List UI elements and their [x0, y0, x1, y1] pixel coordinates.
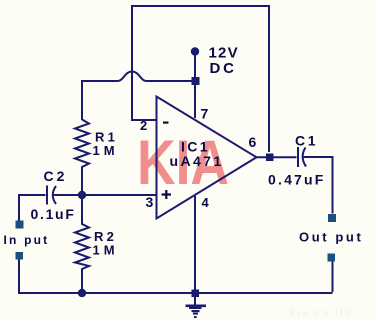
svg-text:1M: 1M: [93, 243, 119, 258]
svg-text:C2: C2: [44, 168, 68, 184]
terminal input lower square: [16, 252, 24, 260]
wire pin 3 / C2 line: [19, 194, 156, 196]
junction pin4 / ground rail: [192, 290, 200, 298]
wire pin 2: [131, 119, 156, 121]
svg-text:1M: 1M: [93, 143, 119, 158]
ground stem: [194, 296, 196, 305]
wire ground rail bottom: [18, 292, 333, 294]
svg-text:In put: In put: [4, 233, 50, 247]
capacitor C1 plates: [298, 147, 306, 167]
terminal input upper square: [16, 221, 24, 229]
junction pin6 / feedback / C1: [266, 154, 274, 162]
svg-text:4: 4: [202, 195, 210, 210]
op-amp plus sign: [162, 190, 171, 199]
capacitor C2 plates: [47, 186, 56, 205]
svg-text:kia co ltd: kia co ltd: [290, 308, 353, 319]
svg-text:6: 6: [249, 134, 257, 150]
node 12V terminal dot: [191, 47, 199, 55]
svg-text:0.1uF: 0.1uF: [31, 206, 76, 222]
svg-text:Out put: Out put: [299, 230, 363, 245]
wire input drop: [18, 194, 20, 292]
junction R2 bottom / ground rail: [78, 289, 86, 297]
junction 12V rail / R1 / pin7: [192, 77, 200, 85]
resistor R1 zigzag: [75, 120, 89, 196]
wire pin 7 / 12V: [194, 53, 196, 118]
svg-text:12V: 12V: [209, 45, 239, 62]
junction R1/R2/C2 node: [78, 191, 86, 199]
svg-text:uA471: uA471: [170, 153, 224, 169]
terminal output lower square: [328, 254, 336, 262]
resistor R2 zigzag: [75, 195, 89, 292]
wire R1 top to 12V rail with crossover hump: [82, 72, 194, 121]
svg-text:DC: DC: [210, 60, 237, 77]
wire feedback box pin2 to pin6 over the top: [132, 6, 269, 152]
svg-text:0.47uF: 0.47uF: [268, 172, 326, 188]
ground symbol bars: [186, 305, 207, 308]
wire pin 4 to ground: [194, 196, 196, 292]
op-amp U1 triangle: [157, 97, 257, 219]
wire pin 6 output to C1: [256, 157, 333, 214]
svg-text:C1: C1: [295, 133, 318, 149]
wire output drop: [332, 261, 334, 292]
op-amp minus sign: [163, 122, 169, 124]
svg-text:7: 7: [201, 106, 209, 122]
svg-text:2: 2: [140, 118, 147, 133]
svg-text:3: 3: [146, 194, 154, 210]
terminal output upper square: [328, 214, 336, 222]
